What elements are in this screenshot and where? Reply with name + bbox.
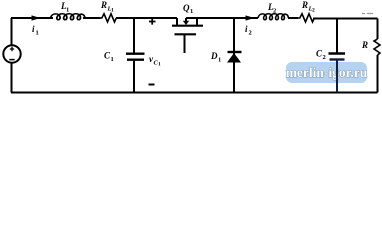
svg-text:1: 1 — [111, 56, 114, 63]
svg-text:2: 2 — [273, 8, 276, 15]
svg-text:2: 2 — [249, 30, 252, 37]
svg-text:2: 2 — [323, 54, 326, 61]
svg-text:1: 1 — [66, 7, 69, 14]
label C2 — [316, 49, 326, 62]
diode D1 — [227, 18, 242, 93]
resistor R load — [374, 19, 380, 93]
label Q1 — [183, 3, 193, 15]
resistor R_L2 — [298, 14, 314, 22]
wire top rail left — [11, 17, 53, 19]
label D1 — [210, 51, 221, 64]
resistor R_L1 — [100, 14, 116, 22]
svg-text:R: R — [301, 0, 308, 10]
label L2 — [267, 2, 276, 15]
label R_L2 — [301, 0, 315, 14]
wire top rail right — [288, 17, 378, 20]
wire top rail mid (R_L1 to Q1 drain) — [116, 17, 177, 19]
label i2 — [245, 24, 252, 37]
svg-text:D: D — [210, 51, 218, 61]
svg-text:2: 2 — [312, 8, 315, 14]
label C1 — [104, 51, 114, 64]
label L1 — [60, 1, 69, 14]
label R — [361, 40, 368, 50]
label R_L1 — [100, 0, 114, 14]
inductor L1 — [51, 14, 86, 20]
svg-text:1: 1 — [158, 62, 161, 68]
inductor L2 — [258, 14, 288, 20]
svg-text:merlin-igor.ru: merlin-igor.ru — [286, 65, 368, 80]
svg-text:1: 1 — [111, 8, 114, 14]
label minus vC1 — [149, 84, 155, 86]
wire L1 to R_L1 — [83, 17, 101, 19]
capacitor C1 branch — [126, 18, 145, 93]
scan artifact dashes top right — [362, 13, 373, 15]
current arrow i1 — [32, 15, 41, 20]
svg-text:1: 1 — [218, 57, 221, 64]
svg-text:Q: Q — [183, 3, 190, 13]
watermark merlin-igor.ru — [286, 62, 368, 83]
source Vs — [3, 18, 20, 93]
current arrow i2 — [246, 15, 255, 20]
capacitor C2 branch — [329, 19, 346, 93]
svg-text:1: 1 — [36, 30, 39, 37]
label vC1 — [149, 54, 161, 68]
label plus vC1 — [149, 18, 156, 24]
wire top rail (Q1 source to L2) — [186, 17, 258, 19]
transistor Q1 — [172, 18, 203, 53]
label i1 — [32, 24, 39, 37]
svg-text:R: R — [100, 0, 107, 10]
svg-text:1: 1 — [190, 8, 193, 15]
wire bottom rail — [11, 92, 378, 94]
svg-text:R: R — [361, 40, 368, 50]
